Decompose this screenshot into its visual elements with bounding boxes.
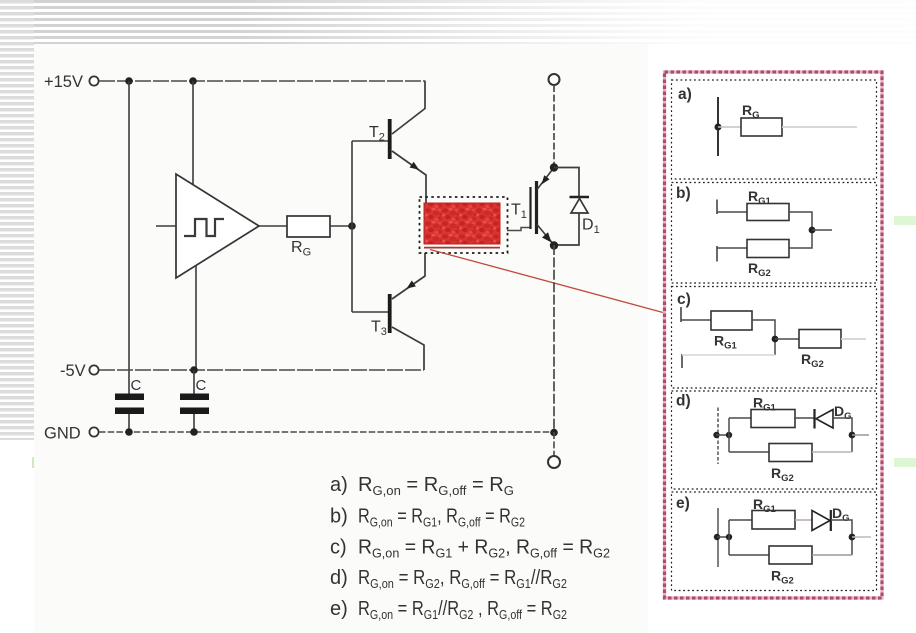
svg-text:RG: RG <box>291 239 311 259</box>
wire e output faint <box>852 536 871 538</box>
background stripe left column <box>0 0 34 440</box>
wire vertical from +15V to capacitor C1 <box>128 81 130 394</box>
wire b bottom left <box>717 247 747 249</box>
diode DG panel e <box>812 510 831 531</box>
wire e bottom right <box>812 554 852 556</box>
wire c top left <box>681 319 711 321</box>
wire op-amp output <box>259 225 287 227</box>
svg-text:RG,on = RG1 + RG2, RG,off = RG: RG,on = RG1 + RG2, RG,off = RG2 <box>358 537 610 561</box>
wire -5V rail <box>99 369 424 371</box>
wire emitter to GND rail <box>553 245 555 432</box>
green tick left <box>32 457 34 468</box>
label RG1 panel c <box>714 333 738 352</box>
label b) <box>676 185 691 202</box>
green mark right upper <box>894 216 916 225</box>
svg-text:e): e) <box>330 598 348 620</box>
wire a to resistor <box>718 126 741 128</box>
svg-text:DG: DG <box>832 505 850 524</box>
panel outer pink border <box>665 72 883 598</box>
+15V terminal <box>89 76 98 85</box>
label C1 <box>131 377 142 394</box>
resistor RG2 panel b <box>747 240 789 258</box>
-5V label <box>60 362 86 380</box>
transistor T2 <box>388 81 426 203</box>
IGBT T1 <box>531 168 555 246</box>
background stripe band <box>0 0 916 44</box>
wire b top left <box>717 211 747 213</box>
panel box b <box>672 183 877 284</box>
svg-text:RG1: RG1 <box>714 333 738 352</box>
wire base bus vertical <box>351 141 353 312</box>
equation e <box>330 598 567 622</box>
label RG <box>291 239 311 259</box>
equation b <box>330 506 525 530</box>
label T2 <box>369 124 385 144</box>
wire +15V rail <box>99 80 426 82</box>
resistor RG1 panel e <box>752 511 795 530</box>
wire gate lead to T1 <box>507 228 531 231</box>
node emitter <box>550 241 558 249</box>
gate network dotted outline <box>420 197 508 253</box>
svg-text:+15V: +15V <box>44 73 83 91</box>
svg-text:C: C <box>196 377 207 394</box>
wire d bottom right faint <box>812 451 852 453</box>
wire a vertical <box>717 97 719 156</box>
red underline <box>424 247 500 249</box>
wire to emitter terminal <box>553 432 555 456</box>
wire c right faint <box>841 338 866 340</box>
diode DG panel d <box>815 409 834 429</box>
wire e left vertical <box>717 508 719 567</box>
svg-text:T2: T2 <box>369 124 385 144</box>
label C2 <box>196 377 207 394</box>
svg-text:GND: GND <box>44 425 81 443</box>
label RG1 panel b <box>748 188 772 207</box>
svg-text:RG2: RG2 <box>771 568 794 587</box>
node GND C2 <box>190 428 198 436</box>
svg-text:a): a) <box>330 474 348 496</box>
node on +15V rail right <box>189 77 197 85</box>
resistor RG2 panel d <box>769 444 812 462</box>
resistor RG panel a <box>741 118 782 136</box>
collector terminal top <box>549 74 560 85</box>
node d left <box>713 432 719 438</box>
wire d left link <box>716 434 729 436</box>
diode D1 <box>554 168 589 246</box>
svg-text:RG,on = RG1, RG,off = RG2: RG,on = RG1, RG,off = RG2 <box>358 506 525 530</box>
node e left <box>714 534 720 540</box>
node on +15V rail left <box>125 77 133 85</box>
square wave symbol <box>184 219 224 236</box>
wire RG to node <box>330 225 352 227</box>
node collector <box>550 163 558 171</box>
wire e RG1 to diode <box>795 519 812 521</box>
label D1 <box>582 217 600 237</box>
wire c bottom faint <box>682 354 775 356</box>
green mark right lower <box>894 458 916 467</box>
svg-text:e): e) <box>676 495 690 512</box>
wire top terminal to collector node <box>553 85 555 167</box>
wire d RG1 to diode <box>795 417 814 419</box>
label T3 <box>371 319 387 339</box>
wire c tick top <box>680 307 682 322</box>
GND terminal <box>89 427 98 436</box>
label RG2 panel d <box>771 465 794 484</box>
wire d branch vertical <box>728 418 730 452</box>
red leader line to panel <box>430 250 663 313</box>
wire e branch vertical <box>728 520 730 555</box>
panel box c <box>672 287 877 389</box>
node e split <box>726 534 732 540</box>
wire b tick top <box>716 200 718 215</box>
emitter terminal bottom <box>548 456 560 468</box>
equation a <box>330 474 514 498</box>
wire b top right <box>789 212 812 230</box>
svg-text:c): c) <box>677 291 691 308</box>
svg-text:b): b) <box>676 185 691 202</box>
wire d diode right <box>833 418 852 452</box>
+15V label <box>44 73 83 91</box>
label DG panel d <box>834 403 852 422</box>
wire d bottom left <box>729 451 769 453</box>
resistor RG2 panel e <box>769 546 812 564</box>
capacitor C2 <box>180 370 209 432</box>
label T1 <box>511 202 527 222</box>
wire a right faint <box>782 126 857 128</box>
panel box e <box>672 492 877 591</box>
node e right <box>849 534 856 541</box>
svg-text:a): a) <box>678 86 692 103</box>
panel box a <box>672 80 877 179</box>
label RG2 panel c <box>801 351 824 370</box>
svg-text:d): d) <box>330 567 348 589</box>
svg-text:DG: DG <box>834 403 852 422</box>
wire GND rail <box>99 431 554 433</box>
svg-text:T3: T3 <box>371 319 387 339</box>
label a) <box>678 86 692 103</box>
svg-text:RG2: RG2 <box>771 465 794 484</box>
wire c middle <box>752 320 775 355</box>
label RG2 panel e <box>771 568 794 587</box>
svg-text:RG2: RG2 <box>801 351 824 370</box>
label e) <box>676 495 690 512</box>
svg-text:RG,on = RG,off = RG: RG,on = RG,off = RG <box>358 474 514 498</box>
node d right <box>849 432 856 439</box>
svg-text:RG2: RG2 <box>748 260 771 279</box>
wire e top left <box>729 519 752 521</box>
node d split <box>726 432 732 438</box>
capacitor C1 <box>115 394 144 433</box>
svg-text:T1: T1 <box>511 202 527 222</box>
node -5V rail <box>190 366 198 374</box>
svg-text:b): b) <box>330 506 348 528</box>
gate network red block <box>424 203 500 244</box>
wire vertical from +15V to op-amp top <box>192 81 194 186</box>
wire c node to RG2 <box>775 338 799 340</box>
node b <box>809 227 816 234</box>
wire d left vertical <box>717 408 719 465</box>
node c <box>772 336 779 343</box>
node driver input <box>348 222 356 230</box>
resistor RG1 panel d <box>751 410 795 428</box>
label d) <box>676 393 691 410</box>
resistor RG <box>287 216 330 237</box>
node a <box>715 124 722 131</box>
svg-text:RG,on = RG1//RG2 , RG,off = RG: RG,on = RG1//RG2 , RG,off = RG2 <box>358 598 567 622</box>
label c) <box>677 291 691 308</box>
label DG panel e <box>832 505 850 524</box>
wire T3 base lead <box>352 311 388 313</box>
wire op-amp bottom to -5V rail <box>195 265 197 370</box>
svg-text:RG,on = RG2, RG,off = RG1//RG2: RG,on = RG2, RG,off = RG1//RG2 <box>358 567 567 591</box>
wire d top left <box>729 417 751 419</box>
resistor RG1 panel b <box>747 204 789 221</box>
GND label <box>44 425 81 443</box>
resistor RG1 panel c <box>711 311 752 330</box>
wire op-amp input stub <box>156 225 176 227</box>
svg-text:D1: D1 <box>582 217 600 237</box>
label RG panel a <box>742 102 760 121</box>
resistor RG2 panel c <box>799 330 841 349</box>
svg-text:c): c) <box>330 537 347 559</box>
transistor T3 <box>388 253 425 370</box>
node GND C1 <box>125 428 133 436</box>
node GND right <box>550 429 558 437</box>
wire b output <box>812 229 832 231</box>
panel box d <box>672 391 877 489</box>
wire e bottom left <box>729 554 769 556</box>
label RG1 panel d <box>753 395 777 414</box>
-5V terminal <box>89 365 98 374</box>
op-amp U1 <box>176 174 259 278</box>
wire b tick bottom <box>716 246 718 262</box>
equation c <box>330 537 610 561</box>
wire d output faint <box>852 434 869 436</box>
wire c tick bottom <box>681 354 683 368</box>
scanned page area tint <box>34 44 648 633</box>
wire b bottom right <box>789 230 812 248</box>
label RG2 panel b <box>748 260 771 279</box>
wire e left link <box>717 536 729 538</box>
svg-text:-5V: -5V <box>60 362 86 380</box>
equation d <box>330 567 567 591</box>
label RG1 panel e <box>753 496 777 515</box>
wire e diode right <box>831 520 852 555</box>
wire T2 base lead <box>352 140 388 142</box>
svg-text:C: C <box>131 377 142 394</box>
svg-text:d): d) <box>676 393 691 410</box>
